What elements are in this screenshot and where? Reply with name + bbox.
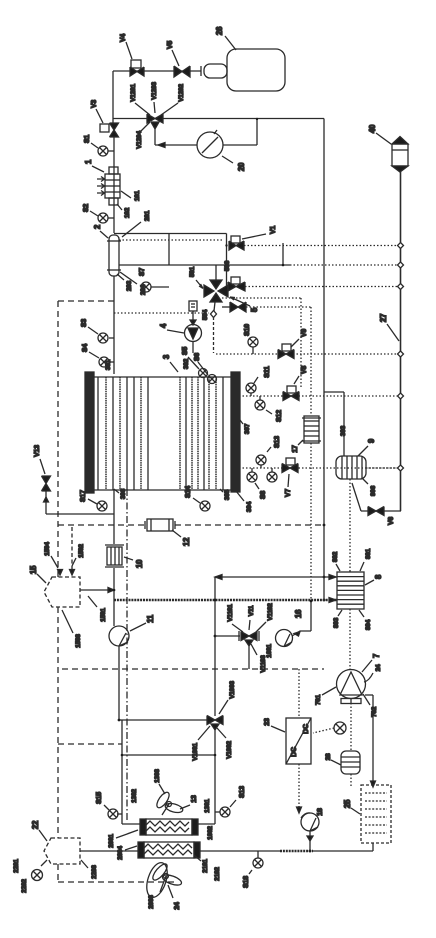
svg-text:2201: 2201	[13, 859, 20, 873]
svg-text:V1201: V1201	[130, 84, 137, 102]
label V13	[34, 445, 41, 457]
svg-text:S14: S14	[185, 486, 192, 498]
control line dash-dot px127	[126, 489, 128, 820]
three-way valve V1001	[207, 716, 223, 731]
svg-text:2102: 2102	[214, 867, 221, 881]
valve V3	[96, 109, 119, 137]
supercap 28	[341, 751, 360, 774]
svg-text:V1203: V1203	[151, 82, 158, 100]
wire textured hot line py600	[114, 599, 337, 601]
label 12	[182, 537, 191, 546]
label S12	[276, 410, 283, 422]
dashed line py525	[58, 524, 324, 526]
dashed control line py669	[62, 668, 324, 670]
label 302	[183, 358, 190, 369]
label 15	[29, 565, 38, 574]
wire dotted line py468	[239, 467, 400, 469]
svg-text:S17: S17	[80, 490, 87, 502]
svg-text:2004: 2004	[117, 846, 124, 860]
sensor S12	[255, 396, 272, 414]
tank 26	[201, 49, 285, 91]
label V9	[301, 329, 308, 337]
label DC lower	[291, 747, 298, 757]
svg-text:V8: V8	[301, 366, 308, 374]
label 2004	[117, 846, 124, 860]
svg-text:V5: V5	[167, 41, 174, 49]
label 3	[162, 354, 171, 359]
wire control drop 301	[222, 298, 301, 388]
label 702	[371, 706, 378, 717]
svg-text:S1: S1	[84, 135, 91, 143]
valve V7	[282, 458, 298, 487]
label 101	[134, 190, 141, 201]
svg-text:DC: DC	[291, 747, 298, 757]
svg-text:24: 24	[174, 902, 181, 910]
label 1301	[204, 799, 211, 813]
sensor S15	[104, 805, 122, 819]
svg-text:S10: S10	[244, 324, 251, 336]
label V1203	[151, 82, 158, 100]
label V11	[248, 605, 255, 616]
wire refrigerant dotted verticals	[349, 479, 351, 670]
svg-text:11: 11	[146, 614, 155, 623]
svg-text:12: 12	[182, 537, 191, 546]
valve V5	[172, 50, 190, 77]
label 803	[333, 617, 340, 628]
wire top pipe	[113, 70, 201, 72]
svg-text:24: 24	[375, 664, 382, 671]
label 801	[365, 548, 372, 559]
label S3	[81, 319, 88, 327]
sensor S18	[249, 851, 263, 874]
label V1002	[226, 741, 233, 759]
label 2003	[148, 895, 155, 909]
wire dotted 298	[246, 307, 311, 416]
svg-text:25: 25	[343, 799, 352, 808]
label S10b	[274, 436, 281, 448]
sensor S13	[215, 800, 236, 817]
label S17	[80, 490, 87, 502]
svg-text:V7: V7	[285, 489, 292, 497]
wire px324 vertical	[323, 119, 326, 602]
sensor S2	[90, 211, 114, 223]
label S13	[239, 786, 246, 798]
svg-text:1002: 1002	[207, 826, 214, 840]
valve V2	[228, 277, 245, 291]
label V4	[120, 34, 127, 42]
label 301	[105, 359, 112, 370]
wire 1502 dashed drop	[71, 527, 73, 573]
svg-text:2001: 2001	[108, 834, 115, 848]
sensor S14	[193, 498, 210, 511]
label 20	[237, 162, 246, 171]
label S1	[84, 135, 91, 143]
svg-text:V1204: V1204	[136, 131, 143, 149]
svg-text:23: 23	[264, 718, 271, 726]
svg-text:27: 27	[379, 313, 388, 322]
svg-text:2101: 2101	[202, 859, 209, 873]
wire short vertical 169	[168, 234, 170, 266]
svg-text:906: 906	[370, 485, 377, 496]
sensor S10	[256, 447, 271, 468]
label 4	[159, 323, 168, 328]
svg-text:V11: V11	[248, 605, 255, 616]
label 701	[315, 694, 322, 705]
label 13	[191, 795, 198, 803]
label 804	[365, 619, 372, 630]
svg-text:26: 26	[215, 26, 224, 35]
label V1001	[192, 743, 199, 761]
dashed enclosure left lower	[58, 607, 175, 882]
label 2102	[214, 867, 221, 881]
svg-text:503: 503	[224, 260, 231, 271]
svg-text:V4: V4	[120, 34, 127, 42]
label 802	[332, 551, 339, 562]
wire gauge loop	[155, 118, 258, 148]
valve V1	[229, 234, 266, 250]
label 2101	[202, 859, 209, 873]
svg-text:S18: S18	[243, 876, 250, 888]
wire px215 vertical	[214, 577, 217, 824]
svg-text:28: 28	[325, 753, 332, 760]
svg-text:V3: V3	[91, 100, 98, 108]
column 3 tube bundle group B	[180, 377, 209, 490]
label V8	[301, 366, 308, 374]
label V1202	[178, 84, 185, 102]
svg-text:1504: 1504	[44, 542, 51, 556]
filter 12	[145, 519, 181, 537]
svg-text:V13: V13	[34, 445, 41, 457]
svg-text:501: 501	[189, 266, 196, 277]
svg-text:701: 701	[315, 694, 322, 705]
motor fan circle	[313, 722, 346, 734]
label 9	[367, 438, 376, 443]
valve V4	[126, 42, 144, 76]
svg-text:803: 803	[333, 617, 340, 628]
valve V9	[278, 339, 299, 359]
label V1102	[267, 603, 274, 621]
svg-text:2003: 2003	[148, 895, 155, 909]
node marks on line 27	[398, 243, 404, 472]
svg-text:10: 10	[135, 559, 144, 568]
svg-text:801: 801	[365, 548, 372, 559]
label 26	[215, 26, 224, 35]
svg-text:102: 102	[124, 207, 131, 218]
svg-text:304: 304	[246, 501, 253, 512]
sensor S4	[89, 352, 114, 367]
svg-text:S2: S2	[83, 204, 90, 212]
label 307	[244, 423, 251, 434]
sensor S11	[246, 377, 258, 396]
wire main vertical to column	[113, 276, 115, 374]
sensor S3	[88, 327, 114, 343]
converter DC box	[286, 718, 311, 764]
label 1503	[75, 634, 82, 648]
wire px311 lower dotted	[310, 443, 312, 601]
svg-text:S15: S15	[96, 792, 103, 804]
label 18	[317, 808, 324, 816]
label 204	[140, 284, 147, 295]
label S2	[83, 204, 90, 212]
wire left drop	[112, 71, 114, 123]
compressor 7	[337, 670, 366, 704]
label 501	[189, 266, 196, 277]
wire pump11 branch py720	[118, 719, 207, 722]
svg-text:306: 306	[120, 488, 127, 499]
fan 24 lower	[151, 862, 183, 892]
svg-text:S13: S13	[274, 436, 281, 448]
heater 1	[92, 166, 120, 205]
heat exchanger 8	[337, 572, 364, 609]
wire main vertical below column	[113, 489, 115, 544]
label 8	[374, 574, 383, 579]
svg-text:802: 802	[332, 551, 339, 562]
svg-text:2202: 2202	[21, 879, 28, 893]
label 1302	[131, 789, 138, 803]
three-way valve V1101	[215, 631, 259, 669]
svg-text:S11: S11	[264, 366, 271, 378]
svg-text:DC: DC	[303, 724, 310, 734]
svg-text:203: 203	[126, 280, 133, 291]
wire py265	[119, 264, 290, 266]
svg-text:S6: S6	[194, 353, 201, 361]
wire branch py233.5	[114, 234, 228, 292]
label 201	[144, 210, 151, 221]
label 2	[93, 224, 102, 229]
battery 25	[361, 785, 391, 843]
svg-text:307: 307	[244, 423, 251, 434]
wire compressor to cap dotted	[350, 703, 352, 788]
label 303	[340, 425, 347, 436]
wire py851 main bottom	[200, 850, 373, 853]
fan 13 upper	[155, 790, 184, 815]
svg-text:V1202: V1202	[178, 84, 185, 102]
label 5	[250, 307, 259, 312]
svg-text:V1101: V1101	[227, 604, 234, 622]
svg-text:S13: S13	[239, 786, 246, 798]
heat exchanger column 3 left header	[85, 372, 94, 493]
label V5	[167, 41, 174, 49]
label 2203	[91, 865, 98, 879]
svg-text:1502: 1502	[78, 544, 85, 558]
svg-text:1503: 1503	[75, 634, 82, 648]
label 2202	[21, 879, 28, 893]
sensor S7	[141, 282, 169, 292]
wire box22 to HX21	[80, 850, 138, 852]
wire riser px283	[282, 243, 284, 265]
valve V8	[283, 386, 299, 401]
label 102	[124, 207, 131, 218]
label 504	[202, 309, 209, 320]
label 25	[343, 799, 352, 808]
label 16	[294, 609, 303, 618]
label 24	[174, 902, 181, 910]
label 7	[372, 653, 381, 658]
svg-text:504: 504	[202, 309, 209, 320]
svg-text:17: 17	[292, 445, 299, 453]
label V1101	[227, 604, 234, 622]
label V6	[388, 517, 395, 525]
pump 18	[301, 813, 319, 851]
label DC upper	[303, 724, 310, 734]
svg-text:702: 702	[371, 706, 378, 717]
valve V13	[40, 459, 51, 491]
valve V6	[352, 483, 401, 516]
label S6	[194, 353, 201, 361]
wire dotted line py396	[239, 395, 400, 397]
wire dotted V2 out	[245, 286, 400, 288]
accumulator 9	[336, 456, 366, 479]
label V7	[285, 489, 292, 497]
column 3 shell edges	[94, 377, 231, 490]
label 304	[246, 501, 253, 512]
dashed enclosure top	[58, 301, 114, 577]
wire electric px299	[298, 669, 300, 811]
label S8	[260, 491, 267, 499]
wire px373 electric	[365, 695, 376, 851]
sensor S6	[198, 362, 217, 384]
instrument box on pump 4 line	[189, 301, 197, 311]
label 2001	[108, 834, 115, 848]
label 1	[84, 159, 93, 164]
svg-text:2203: 2203	[91, 865, 98, 879]
label S18	[243, 876, 250, 888]
label 306	[120, 488, 127, 499]
three-way valve V1201 cluster	[135, 102, 178, 131]
svg-text:305: 305	[224, 489, 231, 500]
svg-text:1302: 1302	[131, 789, 138, 803]
sensor S17	[88, 499, 107, 511]
sensor S5	[188, 357, 208, 378]
air duct walls	[121, 720, 217, 824]
label V1	[270, 226, 277, 234]
label 22	[31, 820, 40, 829]
label S15	[96, 792, 103, 804]
air loop oval 2003	[143, 860, 171, 900]
svg-text:40: 40	[368, 124, 377, 133]
svg-text:101: 101	[134, 190, 141, 201]
label 1601	[266, 644, 273, 658]
label 305	[224, 489, 231, 500]
label 1303	[154, 769, 161, 783]
wire main left vertical	[113, 137, 115, 233]
svg-text:201: 201	[144, 210, 151, 221]
finned cooler 17	[302, 416, 321, 443]
sensor S10a	[248, 337, 258, 354]
node zigzag junctions	[310, 524, 326, 603]
label V1204	[136, 131, 143, 149]
svg-text:1301: 1301	[204, 799, 211, 813]
pump 4	[185, 311, 202, 353]
wire accumulator feed	[324, 392, 344, 456]
svg-text:V1: V1	[270, 226, 277, 234]
column 3 tube bundle group C	[216, 377, 223, 490]
dryer cartridge 40	[392, 137, 408, 173]
valve V4b below V2	[222, 302, 246, 312]
sensor S9	[267, 468, 277, 482]
svg-text:303: 303	[340, 425, 347, 436]
label 1501	[100, 608, 107, 622]
label 203	[126, 280, 133, 291]
label 17	[292, 445, 299, 453]
label V3	[91, 100, 98, 108]
svg-text:S8: S8	[260, 491, 267, 499]
heat exchanger 13 coil	[140, 819, 198, 835]
label 503	[224, 260, 231, 271]
svg-text:V1002: V1002	[226, 741, 233, 759]
wire dotted 201 line	[119, 239, 224, 241]
svg-text:16: 16	[294, 609, 303, 618]
label 1502	[78, 544, 85, 558]
pump 11	[109, 626, 129, 720]
svg-text:20: 20	[237, 162, 246, 171]
label S4	[82, 344, 89, 352]
wire dotted py313	[114, 312, 209, 314]
label S5	[182, 347, 189, 355]
filter dryer 10	[105, 545, 133, 567]
svg-text:18: 18	[317, 808, 324, 816]
svg-text:V9: V9	[301, 329, 308, 337]
svg-text:301: 301	[105, 359, 112, 370]
svg-text:13: 13	[191, 795, 198, 803]
label V1201	[130, 84, 137, 102]
flow meter 20	[197, 130, 233, 163]
node diamond 313	[211, 311, 217, 318]
wire header py118.5	[113, 118, 147, 120]
svg-text:V6: V6	[388, 517, 395, 525]
sensor S1	[91, 143, 114, 156]
label 40	[368, 124, 377, 133]
column 3 tube bundle group A	[98, 377, 148, 490]
svg-text:V1103: V1103	[260, 655, 267, 673]
label 1002	[207, 826, 214, 840]
svg-text:S4: S4	[82, 344, 89, 352]
wire V13 drain	[44, 491, 115, 514]
sensor S8	[247, 468, 259, 489]
label S10a	[244, 324, 251, 336]
heat exchanger 21 coil	[138, 842, 200, 858]
label 2201	[13, 859, 20, 873]
svg-text:V1102: V1102	[267, 603, 274, 621]
wire line 27 vertical	[400, 172, 402, 511]
label 10	[135, 559, 144, 568]
label 23	[264, 718, 271, 726]
separator box 15	[44, 577, 80, 607]
pump 16	[276, 601, 312, 647]
dashed link py744	[58, 743, 122, 745]
svg-text:1501: 1501	[100, 608, 107, 622]
label 28	[325, 753, 332, 760]
label S11	[264, 366, 271, 378]
wire dotted V1 out	[244, 245, 400, 247]
svg-text:302: 302	[183, 358, 190, 369]
label S14	[185, 486, 192, 498]
svg-text:V1001: V1001	[192, 743, 199, 761]
heat exchanger column 3 right header	[231, 372, 240, 492]
svg-text:S7: S7	[139, 268, 146, 276]
svg-text:22: 22	[31, 820, 40, 829]
wire dotted line py354	[216, 353, 400, 355]
sensor pump 2202	[32, 860, 48, 881]
label V1003	[229, 681, 236, 699]
svg-text:15: 15	[29, 565, 38, 574]
intake box 22	[44, 838, 80, 864]
adsorber 2	[100, 231, 121, 276]
label 24a	[375, 664, 382, 671]
svg-text:1601: 1601	[266, 644, 273, 658]
label 11	[146, 614, 155, 623]
wire accumulator out dotted	[366, 467, 400, 469]
